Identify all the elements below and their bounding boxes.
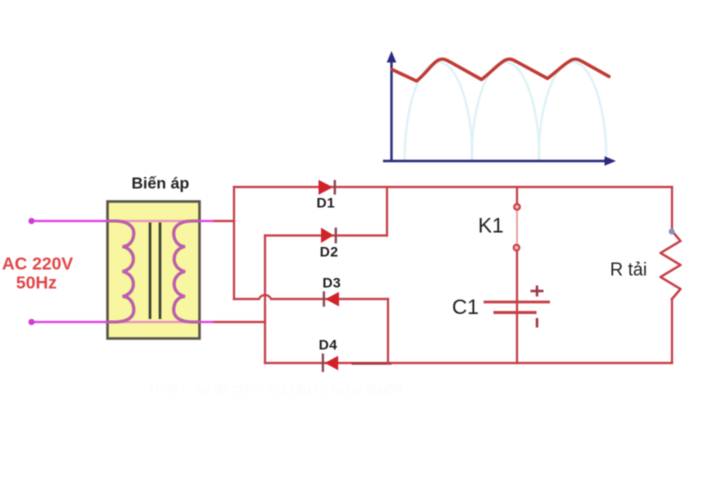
svg-text:D2: D2 [320,243,339,259]
svg-text:50Hz: 50Hz [16,273,57,293]
svg-text:D1: D1 [317,195,336,211]
svg-text:K1: K1 [478,214,504,237]
svg-text:Biến áp: Biến áp [132,176,190,193]
svg-text:AC 220V: AC 220V [2,254,73,274]
svg-text:C1: C1 [452,296,479,319]
svg-text:D4: D4 [319,337,338,353]
svg-text:D3: D3 [323,275,342,291]
svg-text:Hình ... sơ đồ chỉnh lưu cầu: Hình ... sơ đồ chỉnh lưu cầu có tụ lọc n… [150,381,417,396]
svg-text:R tải: R tải [610,259,647,279]
